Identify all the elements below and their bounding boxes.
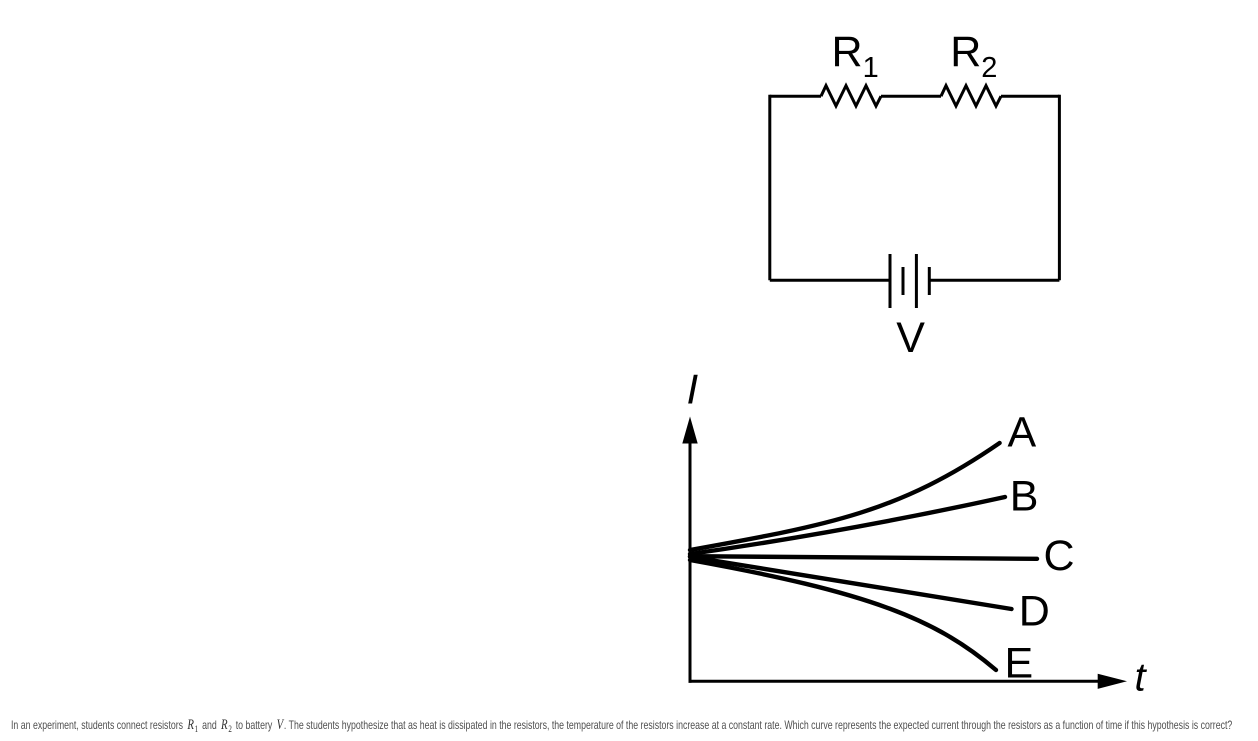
wire: bottom-right segment from battery (929, 279, 1059, 282)
wire: top-middle segment (881, 95, 941, 98)
wire: bottom-left segment to battery (770, 279, 890, 282)
svg-text:R2: R2 (950, 28, 997, 84)
svg-text:B: B (1010, 473, 1039, 521)
svg-text:I: I (687, 366, 699, 413)
curve E (690, 560, 996, 670)
svg-text:E: E (1005, 640, 1034, 688)
wire: top-left segment (770, 95, 821, 98)
battery V (890, 254, 929, 308)
x-axis (t) (689, 674, 1128, 689)
resistor R1 (821, 86, 881, 106)
curve B (690, 497, 1005, 554)
svg-text:A: A (1008, 409, 1037, 457)
svg-text:R1: R1 (832, 28, 879, 84)
svg-text:C: C (1044, 532, 1075, 580)
curve D (690, 557, 1012, 609)
y-axis (I) (682, 417, 697, 683)
resistor R2 (941, 86, 1001, 106)
svg-text:V: V (896, 314, 925, 362)
wire: right side (1058, 95, 1061, 281)
curve C (690, 556, 1037, 559)
svg-text:D: D (1019, 588, 1050, 636)
wire: top-right segment (1001, 95, 1059, 98)
svg-text:t: t (1135, 656, 1148, 700)
wire: left side (768, 95, 771, 281)
curve A (690, 443, 1000, 550)
question text (11, 717, 1232, 735)
